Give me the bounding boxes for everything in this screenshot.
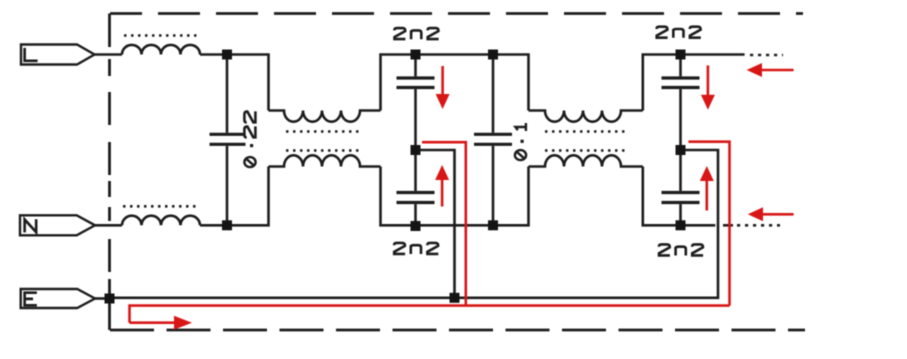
label 0.1 rotated <box>515 123 526 160</box>
wire bottom rail node G to choke2 bottom riser <box>493 167 529 226</box>
choke T1 bottom winding <box>269 155 381 166</box>
capacitor CY3 2n2 bottom lead <box>679 89 682 150</box>
capacitor CY4 2n2 top lead <box>679 150 682 191</box>
node B junction <box>411 50 421 60</box>
node F1 tap junction <box>411 145 421 155</box>
enclosure dashed border bottom <box>110 329 805 332</box>
wire top rail node B to node C <box>416 53 494 56</box>
label 2n2 stage1 bottom <box>394 243 438 254</box>
node C junction <box>488 50 498 60</box>
capacitor CY2 2n2 plates <box>397 193 435 203</box>
inductor L core dotted <box>124 34 201 37</box>
wire E terminal to border junction <box>95 297 110 300</box>
inductor N core dotted <box>123 205 200 208</box>
node earth-border junction <box>105 294 115 304</box>
capacitor CY1 2n2 plates <box>397 78 435 88</box>
choke T2 bottom winding <box>529 155 643 166</box>
red arrow down stage1 shaft <box>441 66 444 96</box>
label 2n2 stage1 top <box>394 28 438 39</box>
bottom rail dash continuation <box>723 224 733 227</box>
wire L terminal to inductor <box>95 53 123 56</box>
terminal E <box>21 289 95 308</box>
capacitor CY4 2n2 plates <box>662 193 700 203</box>
inductor N line <box>122 216 200 226</box>
red arrow chassis shaft <box>130 321 179 324</box>
wire CY1/CY2 tap to earth rail <box>416 150 455 298</box>
node E2 junction <box>411 221 421 231</box>
red arrow up stage1 shaft <box>441 178 444 207</box>
red arrow left bottom shaft <box>761 213 794 216</box>
wire choke2 top out to top rail <box>643 55 681 111</box>
label 2n2 stage2 bottom <box>659 244 703 255</box>
wire choke2 bottom out to bottom rail <box>643 167 681 226</box>
label 2n2 stage2 top <box>657 27 701 38</box>
choke T2 core dotted lines <box>545 132 625 151</box>
wire top rail node D to output <box>681 53 745 56</box>
choke T1 top winding <box>269 111 381 122</box>
node earth-mid junction <box>450 293 460 303</box>
wire inductor L to node A <box>200 53 227 56</box>
red arrowhead left bottom <box>748 207 763 221</box>
earth rail wire E to choke2 tap corner <box>110 150 719 298</box>
node A junction <box>222 50 232 60</box>
capacitor CY2 2n2 bottom lead <box>414 204 417 225</box>
red earth return path <box>130 306 730 323</box>
capacitor CX1 0.22 top lead <box>226 55 229 133</box>
capacitor CY2 2n2 top lead <box>414 150 417 191</box>
node E1 junction <box>222 220 232 230</box>
red arrowhead chassis right <box>174 316 192 330</box>
capacitor CY1 2n2 top lead <box>414 55 417 77</box>
wire bottom rail to node G <box>416 224 494 227</box>
wire N terminal to inductor <box>95 224 122 227</box>
capacitor CX2 0.1 plates <box>474 134 512 144</box>
capacitor CY3 2n2 top lead <box>679 55 682 77</box>
red arrow down stage2 shaft <box>707 65 710 96</box>
capacitor CX1 0.22 plates <box>210 134 246 144</box>
capacitor CY3 2n2 plates <box>662 78 700 88</box>
red interference path stage2 <box>688 142 729 306</box>
node F2 tap junction <box>676 145 686 155</box>
enclosure dashed border top <box>110 12 803 15</box>
red interference path stage1 <box>422 142 466 305</box>
capacitor CX2 0.1 bottom lead <box>492 146 495 225</box>
wire node A to choke1 top riser <box>227 55 269 111</box>
red arrow up stage2 shaft <box>705 180 708 211</box>
wire choke1 top out riser to top rail <box>381 55 416 111</box>
wire node E to choke1 bottom riser <box>227 167 269 226</box>
red arrowhead down stage1 <box>436 94 450 109</box>
inductor L line <box>122 45 200 55</box>
choke T1 core dotted lines <box>286 132 362 151</box>
red arrowhead left top <box>747 63 762 77</box>
red arrowhead up stage2 <box>700 166 714 181</box>
label 0.22 rotated <box>244 111 255 167</box>
capacitor CY1 2n2 bottom lead <box>414 89 417 150</box>
node H junction <box>676 220 686 230</box>
top rail dotted continuation <box>750 54 783 57</box>
terminal L <box>21 45 95 65</box>
choke T2 top winding <box>529 111 643 122</box>
red arrowhead up stage1 <box>435 165 449 180</box>
terminal N <box>20 215 95 235</box>
wire top rail node C to choke2 riser <box>493 55 529 111</box>
red arrow left top shaft <box>760 69 794 72</box>
red arrowhead down stage2 <box>701 95 715 110</box>
capacitor CX1 0.22 bottom lead <box>226 146 229 225</box>
wire inductor N to node E <box>200 224 227 227</box>
enclosure dashed border left <box>108 14 111 331</box>
node D junction <box>676 50 686 60</box>
node G junction <box>488 220 498 230</box>
wire bottom rail node H to output <box>681 224 716 227</box>
capacitor CY4 2n2 bottom lead <box>679 204 682 225</box>
capacitor CX2 0.1 top lead <box>492 55 495 133</box>
wire choke1 bottom out to bottom rail <box>381 167 416 226</box>
bottom rail dotted continuation <box>737 224 780 227</box>
